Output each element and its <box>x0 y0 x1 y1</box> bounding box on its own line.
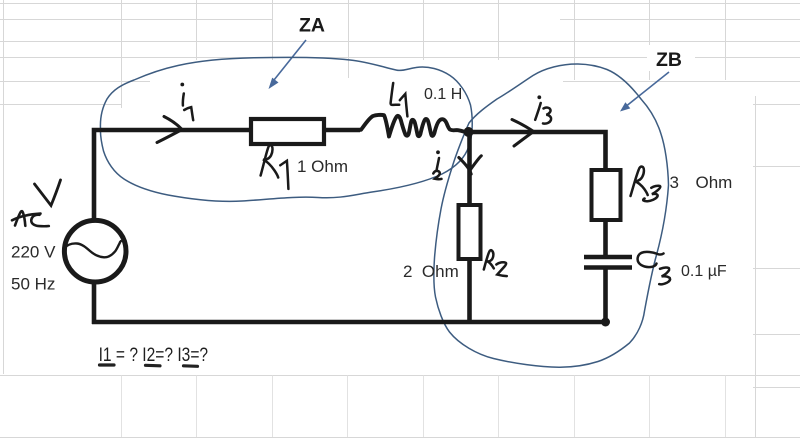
label R2 (handwritten) <box>484 250 507 276</box>
svg-text:1 Ohm: 1 Ohm <box>297 157 348 176</box>
label L1 (handwritten) <box>391 83 408 116</box>
svg-text:220 V: 220 V <box>11 243 56 262</box>
label i3 (handwritten) <box>535 95 551 123</box>
label R3 (handwritten) <box>631 167 661 202</box>
wire: left vertical (source to top rail) and top rail to R1 <box>94 130 251 220</box>
svg-text:I1 = ? I2=? I3=?: I1 = ? I2=? I3=? <box>99 343 209 365</box>
svg-text:0.1 H: 0.1 H <box>424 86 462 103</box>
svg-text:0.1 µF: 0.1 µF <box>681 263 727 280</box>
svg-text:2 Ohm: 2 Ohm <box>403 262 459 281</box>
label ZA <box>288 10 340 38</box>
label C3 (handwritten) <box>638 252 670 285</box>
junction dot bottom right <box>601 318 610 327</box>
region outline ZB <box>434 64 669 367</box>
current arrow I1 <box>157 117 182 143</box>
underline marks <box>100 365 198 366</box>
svg-text:ZA: ZA <box>299 15 325 37</box>
checkmark V (handwritten) <box>35 180 61 206</box>
resistor R1 <box>251 119 324 144</box>
node A (junction dot) <box>464 127 474 137</box>
wire: C3 to bottom rail <box>603 268 608 324</box>
svg-text:ZB: ZB <box>656 49 682 71</box>
wire: source bottom to bottom rail <box>92 283 97 324</box>
wire: R2 to bottom rail <box>467 259 472 324</box>
svg-text:50 Hz: 50 Hz <box>11 275 55 294</box>
label i1 (handwritten) <box>180 83 193 121</box>
wire: node to right corner, down to R3 <box>466 132 606 170</box>
label ZB <box>647 45 695 71</box>
wire: R1 to L1 <box>324 128 360 133</box>
svg-text:3: 3 <box>670 173 679 192</box>
arrow to region ZB <box>620 72 669 112</box>
label AC (handwritten) <box>12 211 49 226</box>
svg-text:Ohm: Ohm <box>696 173 733 192</box>
capacitor C3 <box>584 257 632 268</box>
AC voltage source V1 <box>64 220 126 282</box>
wire: R3 to C3 <box>603 220 608 256</box>
inductor L1 (hand-drawn coil scribble) <box>354 115 464 137</box>
resistor R2 <box>459 205 481 259</box>
wire: node down to R2 <box>467 132 472 206</box>
label i2 (handwritten) <box>433 150 441 179</box>
region outline ZA <box>100 57 472 201</box>
current arrow I3 <box>512 120 534 147</box>
resistor R3 <box>592 170 621 220</box>
arrow to region ZA <box>269 40 307 89</box>
current arrow I2 <box>459 156 482 174</box>
label R1 (handwritten) <box>261 145 289 189</box>
bottom rail wire <box>92 320 606 325</box>
